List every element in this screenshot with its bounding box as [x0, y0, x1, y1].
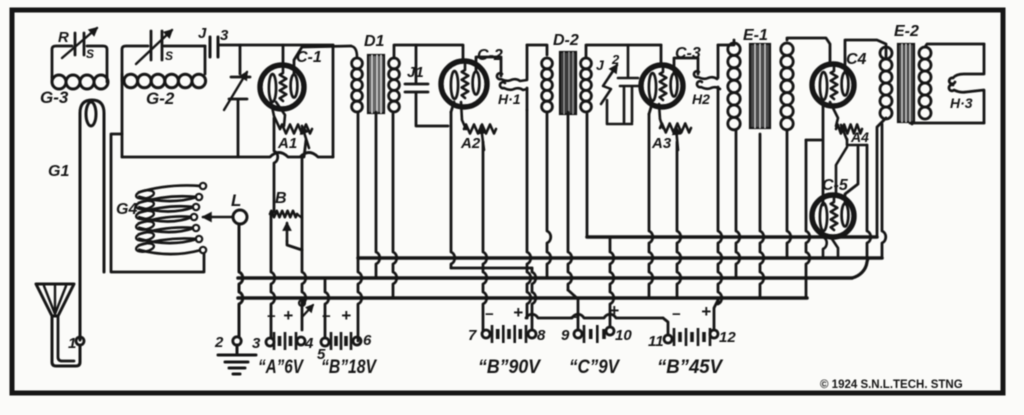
- battery B 18V: [331, 332, 351, 350]
- svg-text:+: +: [283, 306, 293, 325]
- wire seg 144: [806, 139, 821, 142]
- wire C-2 filament drop: [451, 102, 455, 268]
- wire D-2 primary drop: [547, 112, 551, 278]
- polarity C9: [570, 301, 619, 326]
- wire C4 filament to C-5: [822, 104, 825, 205]
- terminal 3: [252, 335, 274, 352]
- svg-text:4: 4: [304, 335, 314, 352]
- wire right riser 877: [877, 118, 886, 237]
- svg-text:2: 2: [214, 334, 224, 351]
- svg-text:2: 2: [611, 52, 620, 67]
- terminal 7: [468, 327, 490, 344]
- label J1: [407, 64, 424, 81]
- label C4: [846, 51, 867, 68]
- rheostat B: [270, 211, 302, 218]
- wire B wiper: [283, 223, 302, 250]
- rheostat A4: [830, 102, 862, 140]
- wire plate C4: [845, 40, 886, 71]
- jack H2: [694, 45, 720, 89]
- label B 90V: [478, 357, 541, 378]
- svg-text:S: S: [165, 49, 173, 63]
- label S2: [165, 49, 173, 63]
- label G-2: [146, 89, 175, 108]
- copyright: [820, 379, 963, 391]
- wire plate C-3: [674, 58, 698, 74]
- wire plate C-1: [294, 46, 351, 74]
- label C-5: [822, 177, 849, 194]
- wire D-2 secondary drop: [586, 114, 589, 237]
- svg-text:“B”18V: “B”18V: [321, 357, 377, 378]
- label A 6V: [258, 357, 304, 378]
- wire C-1 filament drop: [271, 118, 278, 338]
- svg-text:H2: H2: [692, 91, 710, 107]
- wire right riser 868: [867, 145, 871, 258]
- svg-text:© 1924 S.N.L.TECH. STNG: © 1924 S.N.L.TECH. STNG: [820, 379, 963, 391]
- label A4: [850, 129, 869, 145]
- wire E-2 primary drop: [882, 124, 886, 258]
- svg-text:D1: D1: [364, 33, 385, 50]
- terminal 12: [710, 329, 736, 346]
- wire grid top: [218, 45, 333, 157]
- transformer E-1: [718, 38, 830, 130]
- label H-3: [950, 95, 973, 111]
- wire A3 wiper drop: [677, 142, 681, 298]
- bus 2: [238, 258, 868, 278]
- svg-text:A3: A3: [651, 135, 672, 152]
- svg-text:B: B: [275, 190, 287, 207]
- svg-text:6: 6: [363, 332, 372, 349]
- jack H-1: [497, 45, 527, 110]
- svg-text:1: 1: [68, 335, 76, 352]
- svg-text:+: +: [701, 302, 711, 321]
- wire A4 wiper to C-5 grid: [836, 139, 867, 195]
- svg-text:8: 8: [537, 327, 546, 344]
- battery C 9V: [584, 325, 604, 343]
- battery B 90V: [492, 325, 526, 343]
- svg-text:+: +: [513, 303, 523, 322]
- label G1: [48, 163, 69, 180]
- svg-text:G1: G1: [48, 163, 69, 180]
- terminal 4: [297, 300, 314, 352]
- svg-text:“B”45V: “B”45V: [657, 357, 723, 378]
- label G-3: [40, 88, 69, 107]
- bus top: [587, 235, 877, 239]
- label H-1: [498, 91, 521, 107]
- bus 3: [238, 296, 807, 300]
- terminal 11: [526, 314, 672, 350]
- wire A1 wiper drop: [302, 140, 306, 304]
- terminal 9: [561, 327, 582, 344]
- rheostat A1: [271, 102, 312, 148]
- wire H-1 drop: [527, 110, 531, 318]
- label L: [231, 191, 241, 210]
- svg-text:H·3: H·3: [950, 95, 973, 111]
- svg-text:C4: C4: [846, 51, 867, 68]
- wire E-1 core drop: [760, 134, 764, 298]
- label C 9V: [569, 357, 620, 378]
- label D1: [364, 33, 385, 50]
- label B 45V: [657, 357, 723, 378]
- label C-3: [675, 45, 701, 62]
- triode C-5: [812, 195, 854, 237]
- label J2: [596, 52, 620, 73]
- svg-text:A4: A4: [850, 129, 869, 145]
- label C-1: [296, 49, 322, 66]
- coil G-2 with trimmer: [122, 30, 206, 157]
- wire A2 wiper drop: [483, 142, 487, 330]
- terminal 2: [214, 334, 241, 351]
- svg-text:12: 12: [719, 329, 736, 346]
- wire L stem: [239, 224, 243, 337]
- label B 18V: [321, 357, 377, 378]
- polarity B90: [485, 303, 523, 323]
- svg-text:J: J: [198, 25, 207, 42]
- wire E-1 primary drop: [736, 130, 740, 278]
- label B: [275, 190, 287, 207]
- svg-text:J: J: [596, 57, 605, 73]
- svg-text:“A”6V: “A”6V: [258, 357, 304, 378]
- triode C-1: [260, 65, 304, 109]
- wire D1 primary drop: [358, 112, 362, 341]
- triode C-3: [641, 65, 683, 107]
- svg-text:11: 11: [648, 333, 664, 350]
- svg-text:D-2: D-2: [553, 32, 579, 49]
- terminal 10: [606, 237, 632, 344]
- label A2: [460, 135, 481, 152]
- wire D1 secondary drop: [393, 114, 397, 298]
- terminal 8: [451, 268, 546, 344]
- svg-text:“C”9V: “C”9V: [569, 357, 620, 378]
- svg-text:10: 10: [615, 327, 632, 344]
- svg-text:−: −: [672, 306, 681, 323]
- terminal 1: [68, 335, 84, 352]
- svg-text:H·1: H·1: [498, 91, 521, 107]
- transformer D-2: [527, 45, 661, 114]
- triode C-2: [441, 61, 487, 107]
- wire C-3 filament drop: [649, 104, 653, 298]
- battery B 45V: [674, 328, 710, 346]
- label C-2: [477, 47, 503, 64]
- wire grid C-3: [660, 45, 663, 64]
- wire G4 frame: [111, 134, 204, 272]
- svg-text:L: L: [231, 191, 241, 210]
- svg-text:3: 3: [220, 27, 229, 44]
- label A1: [277, 135, 297, 152]
- terminal 5: [317, 279, 329, 363]
- svg-text:R: R: [58, 29, 69, 46]
- polarity A: [267, 306, 293, 325]
- wire box bottom: [122, 153, 333, 158]
- triode C4: [812, 64, 854, 106]
- battery A 6V: [274, 332, 296, 350]
- wire grid C-1: [282, 45, 285, 66]
- label E-2: [894, 23, 919, 40]
- ground: [218, 345, 256, 374]
- wire right riser 807: [806, 140, 810, 298]
- switch L: [203, 210, 247, 224]
- coil G-3 with trimmer R: [52, 28, 108, 89]
- label E-1: [743, 27, 768, 44]
- svg-text:C-5: C-5: [822, 177, 849, 194]
- svg-text:+: +: [341, 306, 351, 325]
- svg-text:“B”90V: “B”90V: [478, 357, 541, 378]
- label D-2: [553, 32, 579, 49]
- svg-text:G-3: G-3: [40, 88, 69, 107]
- wire H2 drop: [714, 87, 722, 330]
- wire E-2 output loop: [910, 123, 984, 124]
- svg-text:S: S: [86, 47, 94, 61]
- wire E-1 secondary drop: [787, 130, 791, 258]
- svg-text:C-2: C-2: [477, 47, 503, 64]
- wire plate C-2: [476, 57, 501, 76]
- polarity B45: [672, 302, 711, 323]
- wire D1 core drop: [376, 112, 380, 278]
- variable capacitor tuning: [224, 45, 250, 157]
- svg-text:A2: A2: [460, 135, 481, 152]
- coil G4 with taps: [135, 183, 206, 254]
- wire D-2 core drop: [568, 112, 578, 330]
- label J: [198, 25, 207, 42]
- rheostat A3: [659, 104, 691, 150]
- label H2: [692, 91, 710, 107]
- rheostat A2: [461, 102, 496, 150]
- label 3: [220, 27, 229, 44]
- label A3: [651, 135, 672, 152]
- terminal 6: [353, 332, 372, 349]
- svg-text:G4: G4: [116, 201, 137, 218]
- wire grid C-2: [462, 45, 465, 61]
- svg-text:G-2: G-2: [146, 89, 175, 108]
- label R: [58, 29, 69, 46]
- svg-text:3: 3: [252, 335, 261, 352]
- svg-text:A1: A1: [277, 135, 297, 152]
- polarity B18: [322, 306, 351, 325]
- bus 1: [358, 256, 882, 260]
- svg-text:7: 7: [468, 327, 477, 344]
- capacitor J1: [405, 45, 448, 126]
- svg-text:−: −: [267, 308, 276, 325]
- jack H-3: [949, 44, 984, 123]
- capacitor J3: [210, 37, 218, 57]
- svg-text:E-2: E-2: [894, 23, 919, 40]
- wire C-5 plate lead: [845, 147, 858, 204]
- transformer E-2: [880, 44, 984, 122]
- antenna: [36, 284, 80, 366]
- svg-text:J1: J1: [407, 64, 424, 81]
- transformer D1: [351, 45, 462, 113]
- svg-text:E-1: E-1: [743, 27, 768, 44]
- variable capacitor J-2: [601, 45, 640, 124]
- svg-text:−: −: [485, 306, 494, 323]
- loop antenna G1: [80, 100, 104, 340]
- label S: [86, 47, 94, 61]
- wire C-5 filament legs: [823, 235, 838, 258]
- label G4: [116, 201, 137, 218]
- svg-text:9: 9: [561, 327, 570, 344]
- svg-text:−: −: [322, 308, 331, 325]
